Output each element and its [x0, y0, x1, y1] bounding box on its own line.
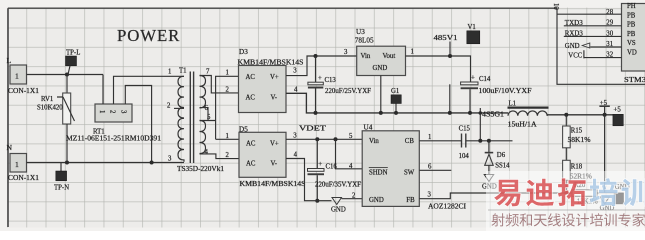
node junction L/TP-L/RV1	[65, 73, 69, 77]
sheet border frame left edge	[7, 8, 9, 227]
wire stub near C14	[448, 84, 452, 115]
net label RXD3 / wire pin30	[564, 30, 622, 37]
test point GND	[614, 184, 630, 204]
wire U4 FB to divider	[419, 192, 614, 199]
node junction N/RV1	[65, 161, 69, 165]
wire U3 GND stub	[379, 76, 383, 115]
watermark rule	[488, 210, 645, 211]
inductor L1 15uH/1A	[508, 100, 549, 128]
connector CON-1X1 (L)	[8, 65, 39, 95]
test point TP-L	[66, 50, 81, 75]
T1 core	[190, 72, 193, 164]
node junction C16 top	[315, 137, 319, 141]
T1 secondary winding	[200, 76, 206, 108]
resistor R20 13K1%	[572, 182, 598, 206]
wire U3 output	[406, 56, 471, 82]
wire U4 CB to C15	[419, 134, 461, 141]
net label VCC / wire pin32	[568, 50, 621, 59]
capacitor C16 220uF/35V.YXF	[308, 139, 362, 202]
wire L row	[27, 74, 104, 76]
diode D6 SS14	[485, 139, 510, 174]
watermark logo line1	[494, 178, 645, 206]
test point V1	[467, 24, 480, 44]
thermistor RT1 MZ11-06E151-251RM10D391	[66, 104, 161, 143]
test point G1	[391, 88, 401, 115]
net label 4S5G1	[480, 108, 504, 118]
ground GND (D6)	[482, 175, 497, 191]
wire D5 pin1	[216, 138, 239, 140]
watermark overlay	[486, 171, 645, 231]
capacitor C14 100uF/10V.YXF	[461, 74, 532, 115]
net label TXD3 / wire pin29	[564, 20, 622, 27]
sheet border frame top edge	[8, 7, 557, 9]
node junction C13 top	[314, 54, 318, 58]
wire SHDN branch	[336, 139, 363, 170]
T1 pin2 stub	[174, 107, 184, 109]
ground GND (divider)	[600, 197, 615, 212]
connector U5 STM header	[622, 3, 645, 84]
wire R15-R18	[565, 148, 567, 161]
watermark slogan line2	[491, 213, 645, 226]
buck converter U4 AOZ1282CI	[362, 124, 467, 211]
wire U4 GND pin	[342, 193, 363, 200]
wire +5 rail down	[604, 115, 606, 193]
wire N row	[27, 162, 185, 164]
capacitor C15 104	[459, 125, 513, 160]
bridge rectifier D5 KMB14F/MBSK14S	[226, 126, 306, 189]
node junction RT1/N	[150, 161, 154, 165]
wire T1 pin4 to D5 pin2	[200, 154, 240, 159]
wire RT1 pin3 to N	[125, 86, 151, 163]
test point +5	[613, 106, 623, 126]
resistor R18 52R1%	[563, 160, 593, 195]
wire L1 to +5	[547, 115, 613, 116]
wire pin28 loop	[552, 3, 645, 84]
wire D5 V- to GND	[286, 159, 332, 201]
title POWER	[117, 26, 180, 45]
varistor RV1 S10K420	[37, 75, 75, 163]
wire D5 V+ to U4 Vin	[286, 133, 362, 140]
power +5 symbol	[599, 100, 609, 117]
T1 primary winding	[178, 76, 184, 118]
node junction R15 top	[564, 113, 568, 117]
wire RT1 pin1	[102, 75, 104, 105]
capacitor C13 220uF/25V.YXF	[308, 56, 371, 113]
bridge rectifier D3 KMB14F/MBSK14S	[226, 48, 304, 113]
net label 485V1	[434, 35, 458, 58]
wire U4 SW	[419, 163, 451, 170]
wire RT1 pin2 to T1 pin1	[114, 76, 185, 104]
net label VDET	[299, 125, 327, 132]
wire T1 pin5 to D3/D5 pin1	[200, 76, 239, 139]
node L label	[7, 56, 12, 65]
wire D3 V+ to U3 input	[286, 56, 357, 76]
wire C15 to rail	[478, 111, 482, 143]
wire T1 pin6 tap	[200, 108, 209, 121]
transformer T1 TS35D-220Vk1	[167, 68, 224, 174]
node N label	[7, 143, 13, 152]
test point TP-N	[54, 163, 69, 192]
regulator U3 78L05	[344, 28, 414, 76]
connector CON-1X1 (N)	[8, 154, 39, 183]
node junction C13 bottom	[314, 111, 318, 115]
ground GND arrow / wire pin31	[565, 41, 622, 50]
node junction SHDN branch	[334, 137, 338, 141]
wire T1 pin7 to D3 pin2	[200, 76, 239, 93]
resistor R15 58K1%	[563, 115, 591, 148]
ground GND (C16/D5)	[331, 198, 346, 214]
wire D3 V- to common rail	[286, 93, 508, 113]
